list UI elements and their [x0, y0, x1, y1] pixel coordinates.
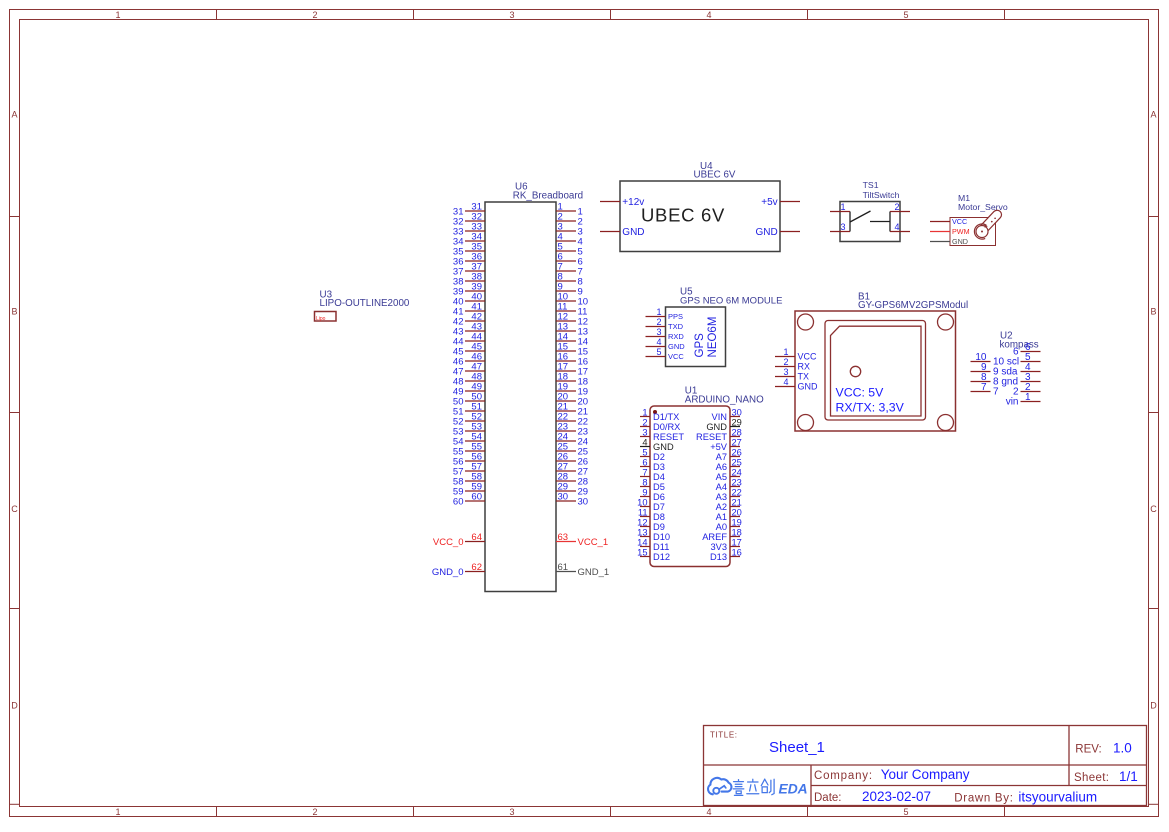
- U6 pin 49: [453, 382, 485, 398]
- TS1 contact bracket right: [889, 212, 891, 232]
- svg-text:6: 6: [1013, 347, 1019, 358]
- svg-text:62: 62: [471, 562, 482, 573]
- svg-text:TITLE:: TITLE:: [710, 731, 738, 740]
- U1 pin 5 D2: [640, 448, 665, 462]
- svg-text:5: 5: [903, 10, 908, 20]
- U1 pin 13 D10: [637, 528, 670, 542]
- U6 pin 52: [453, 412, 485, 428]
- title block Sheet row: [1074, 769, 1138, 784]
- svg-text:15: 15: [637, 548, 647, 558]
- U1 pin 29 GND: [706, 418, 742, 432]
- U6 pin 25: [556, 442, 588, 458]
- svg-text:RX/TX: 3,3V: RX/TX: 3,3V: [836, 400, 905, 414]
- svg-text:TX: TX: [798, 372, 810, 382]
- U6 pin 39: [453, 282, 485, 298]
- U2 pin 10: [971, 352, 1020, 368]
- svg-text:18: 18: [732, 528, 742, 538]
- TS1 pin 4: [890, 222, 910, 232]
- U6 pin 59: [453, 482, 485, 498]
- svg-text:NEO6M: NEO6M: [707, 317, 719, 358]
- U6 pin 31: [453, 202, 485, 218]
- B1 mounting hole top-left: [798, 314, 814, 330]
- svg-text:PWM: PWM: [952, 227, 970, 236]
- U1 pin 11 D8: [638, 508, 665, 522]
- U6 pin 51: [453, 402, 485, 418]
- U6 pin 36: [453, 252, 485, 268]
- svg-text:16: 16: [732, 548, 742, 558]
- EDA logo cloud icon: [708, 778, 731, 794]
- svg-text:VCC_0: VCC_0: [433, 537, 464, 548]
- title block Date row: [814, 789, 1097, 805]
- U6 pin 47: [453, 362, 485, 378]
- svg-text:1.0: 1.0: [1113, 741, 1132, 756]
- U4 designator label: [694, 161, 736, 180]
- svg-text:60: 60: [471, 492, 482, 503]
- U6 pin 12: [556, 312, 588, 328]
- B1 mounting hole top-right: [938, 314, 954, 330]
- svg-text:29: 29: [732, 418, 742, 428]
- svg-text:3: 3: [509, 807, 514, 817]
- svg-text:22: 22: [732, 488, 742, 498]
- U6 pin 20: [556, 392, 588, 408]
- svg-text:Motor_Servo: Motor_Servo: [958, 202, 1008, 212]
- U2 pin 1: [1006, 392, 1041, 408]
- U1 pin 21 A2: [716, 498, 742, 512]
- U1 pin 2 D0/RX: [640, 418, 680, 432]
- svg-text:GND: GND: [798, 382, 819, 392]
- svg-text:+12v: +12v: [622, 197, 644, 208]
- U1 pin 8 D5: [640, 478, 665, 492]
- ruler row labels left: [11, 110, 18, 711]
- U6 pin 17: [556, 362, 588, 378]
- U6 pin 42: [453, 312, 485, 328]
- EDA logo CJK text jia li chuang: [733, 779, 774, 795]
- svg-text:8: 8: [642, 478, 647, 488]
- U6 pin 27: [556, 462, 588, 478]
- U6 pin 28: [556, 472, 588, 488]
- svg-text:7: 7: [981, 382, 987, 393]
- svg-text:D13: D13: [710, 552, 727, 562]
- svg-text:1: 1: [642, 408, 647, 418]
- svg-text:D5: D5: [653, 482, 665, 492]
- U5 pin 4 GND: [646, 337, 686, 351]
- U2 pin 4: [1021, 362, 1041, 373]
- U6 pin 2: [556, 212, 583, 228]
- svg-text:REV:: REV:: [1075, 744, 1101, 756]
- svg-text:D0/RX: D0/RX: [653, 422, 680, 432]
- svg-text:VCC: VCC: [668, 352, 684, 361]
- svg-text:23: 23: [732, 478, 742, 488]
- svg-text:1: 1: [841, 202, 846, 212]
- svg-text:+5v: +5v: [761, 197, 777, 208]
- TS1 switch lever: [850, 211, 890, 222]
- U2 pin 3: [1021, 372, 1041, 383]
- svg-text:LIPO-OUTLINE2000: LIPO-OUTLINE2000: [320, 298, 410, 309]
- U6 pin 5: [556, 242, 583, 258]
- U6 pin 58: [453, 472, 485, 488]
- svg-text:Company:: Company:: [814, 770, 873, 782]
- svg-text:D12: D12: [653, 552, 670, 562]
- svg-text:4: 4: [642, 438, 647, 448]
- U6 pin 22: [556, 412, 588, 428]
- U6 pin 38: [453, 272, 485, 288]
- svg-text:11: 11: [638, 508, 648, 518]
- U4 value text UBEC 6V: [641, 204, 725, 225]
- svg-text:A6: A6: [716, 462, 727, 472]
- svg-text:VCC: VCC: [798, 352, 818, 362]
- U6 pin 37: [453, 262, 485, 278]
- svg-text:5: 5: [642, 448, 647, 458]
- U6 pin 62 GND_0: [432, 562, 485, 578]
- U5 value text GPS NEO6M: [694, 317, 719, 358]
- U1 pin 26 A7: [716, 448, 742, 462]
- U6 pin 26: [556, 452, 588, 468]
- U1 pin 3 RESET: [640, 428, 684, 442]
- svg-text:5: 5: [656, 347, 661, 357]
- U1 pin 7 D4: [640, 468, 665, 482]
- svg-text:19: 19: [732, 518, 742, 528]
- title block outline: [704, 726, 1147, 806]
- svg-text:GND: GND: [706, 422, 727, 432]
- svg-text:C: C: [11, 504, 18, 514]
- U5 pin 1 PPS: [646, 307, 684, 321]
- svg-text:64: 64: [471, 532, 482, 543]
- svg-text:GPS NEO 6M MODULE: GPS NEO 6M MODULE: [680, 295, 782, 306]
- svg-text:3: 3: [642, 428, 647, 438]
- svg-text:GND: GND: [668, 342, 685, 351]
- U2 pin 7: [971, 382, 1000, 398]
- U6 pin 21: [556, 402, 588, 418]
- U1 designator label: [685, 386, 764, 406]
- svg-text:14: 14: [637, 538, 647, 548]
- svg-text:3: 3: [509, 10, 514, 20]
- U6 pin 41: [453, 302, 485, 318]
- U1 pin 15 D12: [637, 548, 670, 562]
- svg-text:2: 2: [312, 10, 317, 20]
- U5 pin 5 VCC: [646, 347, 685, 361]
- U1 pin 14 D11: [637, 538, 669, 552]
- EDA logo EDA text: [779, 782, 808, 797]
- svg-text:kompass: kompass: [1000, 339, 1039, 350]
- svg-text:28: 28: [732, 428, 742, 438]
- U6 pin 55: [453, 442, 485, 458]
- U6 pin 56: [453, 452, 485, 468]
- svg-text:D: D: [11, 701, 18, 711]
- svg-text:TiltSwitch: TiltSwitch: [863, 190, 900, 200]
- U6 pin 45: [453, 342, 485, 358]
- U6 pin 11: [556, 302, 587, 318]
- B1 antenna feed hole: [850, 366, 860, 376]
- U6 pin 32: [453, 212, 485, 228]
- svg-text:RESET: RESET: [696, 432, 727, 442]
- U1 pin 18 AREF: [702, 528, 742, 542]
- svg-text:GY-GPS6MV2GPSModul: GY-GPS6MV2GPSModul: [858, 300, 968, 311]
- U6 pin 1: [556, 202, 583, 218]
- U6 pin 60: [453, 492, 485, 508]
- U6 designator label: [513, 182, 583, 202]
- U6 pin 29: [556, 482, 588, 498]
- U3 value text Lipo: [316, 316, 326, 322]
- U6 pin 18: [556, 372, 588, 388]
- svg-text:RXD: RXD: [668, 332, 684, 341]
- B1 antenna outer outline: [825, 321, 926, 421]
- U1 pin 23 A4: [716, 478, 742, 492]
- U1 pin 30 VIN: [712, 408, 742, 422]
- svg-text:2: 2: [783, 357, 788, 367]
- U1 pin 17 3V3: [710, 538, 741, 552]
- U6 pin 3: [556, 222, 583, 238]
- U6 pin 23: [556, 422, 588, 438]
- svg-text:VCC: 5V: VCC: 5V: [836, 386, 885, 400]
- svg-text:RESET: RESET: [653, 432, 684, 442]
- svg-text:D11: D11: [653, 542, 669, 552]
- U6 pin 16: [556, 352, 588, 368]
- svg-text:10: 10: [637, 498, 647, 508]
- svg-text:GPS: GPS: [694, 333, 706, 358]
- U2 pin 8: [971, 372, 1019, 388]
- TS1 pin 3: [830, 222, 850, 232]
- U6 pin 40: [453, 292, 485, 308]
- M1 pin GND: [930, 237, 968, 246]
- title block sheet name value: [769, 739, 825, 756]
- U6 pin 50: [453, 392, 485, 408]
- svg-text:Your Company: Your Company: [881, 767, 970, 782]
- U2 pin 6: [1013, 342, 1041, 358]
- svg-text:TXD: TXD: [668, 322, 684, 331]
- svg-text:30: 30: [558, 492, 569, 503]
- svg-text:3: 3: [783, 367, 788, 377]
- svg-text:A: A: [1150, 110, 1156, 120]
- svg-text:3V3: 3V3: [710, 542, 727, 552]
- U2 pin 9: [971, 362, 1018, 378]
- U6 pin 24: [556, 432, 588, 448]
- svg-text:1: 1: [1025, 392, 1031, 403]
- B1 pin 4 GND: [775, 377, 818, 392]
- M1 body: [950, 218, 996, 246]
- B1 mounting hole bottom-left: [798, 415, 814, 431]
- U1 pin 28 RESET: [696, 428, 742, 442]
- svg-text:GND_1: GND_1: [578, 567, 610, 578]
- U1 pin 12 D9: [637, 518, 665, 532]
- svg-text:ARDUINO_NANO: ARDUINO_NANO: [685, 395, 764, 406]
- U6 pin 4: [556, 232, 583, 248]
- svg-text:13: 13: [637, 528, 647, 538]
- TS1 pin 2: [890, 202, 910, 212]
- svg-text:4: 4: [894, 222, 899, 232]
- svg-text:D4: D4: [653, 472, 665, 482]
- B1 pin 2 RX: [775, 357, 810, 372]
- U6 pin 8: [556, 272, 583, 288]
- U2 designator label: [1000, 331, 1039, 351]
- U1 pin 4 GND: [640, 438, 674, 452]
- svg-text:Drawn By:: Drawn By:: [954, 793, 1013, 805]
- ruler column labels top: [115, 10, 908, 20]
- svg-text:GND: GND: [755, 227, 777, 238]
- svg-text:4: 4: [706, 10, 711, 20]
- svg-text:D2: D2: [653, 452, 665, 462]
- svg-text:GND: GND: [653, 442, 674, 452]
- svg-text:vin: vin: [1006, 397, 1019, 408]
- svg-text:4: 4: [656, 337, 661, 347]
- svg-text:RK_Breadboard: RK_Breadboard: [513, 190, 583, 201]
- svg-text:RX: RX: [798, 362, 811, 372]
- svg-text:5: 5: [903, 807, 908, 817]
- U1 pin 1 D1/TX: [640, 408, 679, 422]
- svg-text:60: 60: [453, 496, 464, 507]
- U6 pin 15: [556, 342, 588, 358]
- svg-text:3: 3: [841, 222, 846, 232]
- U6 pin 19: [556, 382, 588, 398]
- U6 pin 10: [556, 292, 588, 308]
- B1 designator label: [858, 292, 968, 312]
- B1 pin 1 VCC: [775, 347, 817, 362]
- U1 pin 19 A0: [716, 518, 742, 532]
- svg-text:UBEC 6V: UBEC 6V: [641, 204, 725, 225]
- svg-text:30: 30: [732, 408, 742, 418]
- M1 servo horn icon: [974, 210, 1001, 239]
- U1 pin 27 +5V: [710, 438, 742, 452]
- svg-text:12: 12: [637, 518, 647, 528]
- TS1 contact bracket left: [849, 212, 851, 232]
- TS1 body: [840, 202, 900, 242]
- svg-text:itsyourvalium: itsyourvalium: [1018, 790, 1097, 805]
- svg-text:Date:: Date:: [814, 792, 842, 804]
- svg-text:6: 6: [642, 458, 647, 468]
- svg-text:D1/TX: D1/TX: [653, 412, 679, 422]
- U1 pin 24 A5: [716, 468, 742, 482]
- svg-text:GND: GND: [622, 227, 644, 238]
- U6 pin 44: [453, 332, 485, 348]
- U6 pin 35: [453, 242, 485, 258]
- U6 body: [485, 202, 556, 592]
- U1 pin 10 D7: [637, 498, 665, 512]
- svg-text:D3: D3: [653, 462, 665, 472]
- svg-text:1: 1: [115, 10, 120, 20]
- B1 antenna inner outline with chamfer: [831, 326, 922, 416]
- svg-text:B: B: [1150, 307, 1156, 317]
- svg-text:D8: D8: [653, 512, 665, 522]
- svg-text:21: 21: [732, 498, 742, 508]
- U1 pin 20 A1: [716, 508, 742, 522]
- svg-text:VCC_1: VCC_1: [578, 537, 609, 548]
- svg-text:A7: A7: [716, 452, 727, 462]
- M1 designator label: [958, 193, 1008, 212]
- svg-text:7: 7: [642, 468, 647, 478]
- svg-text:Lipo: Lipo: [316, 316, 326, 322]
- TS1 pin 1: [830, 202, 850, 212]
- B1 pin 3 TX: [775, 367, 809, 382]
- svg-text:PPS: PPS: [668, 312, 683, 321]
- U6 pin 7: [556, 262, 583, 278]
- svg-text:GND: GND: [952, 237, 968, 246]
- U2 pin 2: [1013, 382, 1041, 398]
- svg-text:24: 24: [732, 468, 742, 478]
- svg-text:B: B: [11, 307, 17, 317]
- svg-text:D: D: [1150, 701, 1157, 711]
- svg-text:C: C: [1150, 504, 1157, 514]
- svg-text:7: 7: [993, 387, 999, 398]
- svg-text:2: 2: [642, 418, 647, 428]
- ruler column labels bottom: [115, 807, 908, 817]
- U6 pin 13: [556, 322, 588, 338]
- svg-text:26: 26: [732, 448, 742, 458]
- svg-text:20: 20: [732, 508, 742, 518]
- svg-text:61: 61: [558, 562, 569, 573]
- svg-text:63: 63: [558, 532, 569, 543]
- svg-text:1: 1: [656, 307, 661, 317]
- svg-text:A: A: [11, 110, 17, 120]
- svg-text:GND_0: GND_0: [432, 567, 464, 578]
- U5 designator label: [680, 287, 782, 307]
- svg-text:1: 1: [115, 807, 120, 817]
- svg-text:Sheet_1: Sheet_1: [769, 739, 825, 756]
- svg-text:25: 25: [732, 458, 742, 468]
- B1 body: [795, 311, 956, 431]
- svg-text:VIN: VIN: [712, 412, 728, 422]
- U1 pin 6 D3: [640, 458, 665, 472]
- svg-text:EDA: EDA: [779, 782, 808, 797]
- B1 mounting hole bottom-right: [938, 415, 954, 431]
- U1 pin 16 D13: [710, 548, 742, 562]
- svg-text:3: 3: [656, 327, 661, 337]
- svg-text:D7: D7: [653, 502, 665, 512]
- svg-text:AREF: AREF: [702, 532, 727, 542]
- U1 pin 22 A3: [716, 488, 742, 502]
- svg-text:+5V: +5V: [710, 442, 728, 452]
- U6 pin 48: [453, 372, 485, 388]
- svg-text:VCC: VCC: [952, 217, 967, 226]
- U6 pin 9: [556, 282, 583, 298]
- svg-text:1: 1: [783, 347, 788, 357]
- title block TITLE label: [710, 731, 738, 740]
- U6 pin 54: [453, 432, 485, 448]
- svg-text:2: 2: [894, 202, 899, 212]
- U6 pin 34: [453, 232, 485, 248]
- svg-text:A5: A5: [716, 472, 727, 482]
- svg-text:A1: A1: [716, 512, 727, 522]
- U5 pin 3 RXD: [646, 327, 685, 341]
- U1 pin1 marker dot: [653, 410, 657, 414]
- svg-text:UBEC 6V: UBEC 6V: [694, 169, 736, 180]
- U1 pin 25 A6: [716, 458, 742, 472]
- U1 pin 9 D6: [640, 488, 665, 502]
- U6 pin 6: [556, 252, 583, 268]
- svg-text:30: 30: [578, 496, 589, 507]
- svg-text:9: 9: [642, 488, 647, 498]
- U4 body: [620, 181, 780, 252]
- U3 body: [315, 312, 337, 322]
- U6 pin 63 VCC_1: [556, 532, 608, 548]
- svg-text:TS1: TS1: [863, 180, 879, 190]
- U2 pin 5: [1021, 352, 1041, 363]
- U6 pin 61 GND_1: [556, 562, 609, 578]
- title block REV: [1075, 741, 1131, 756]
- U4 pin GND left: [600, 227, 645, 238]
- svg-text:1/1: 1/1: [1119, 769, 1138, 784]
- title block Company row: [814, 767, 970, 782]
- U6 pin 46: [453, 352, 485, 368]
- U6 pin 64 VCC_0: [433, 532, 485, 548]
- svg-text:D9: D9: [653, 522, 665, 532]
- M1 pin VCC: [930, 217, 967, 226]
- U5 pin 2 TXD: [646, 317, 684, 331]
- M1 pin PWM: [930, 227, 970, 236]
- svg-text:2023-02-07: 2023-02-07: [862, 789, 931, 804]
- U6 pin 43: [453, 322, 485, 338]
- U4 pin GND right: [755, 227, 800, 238]
- svg-text:4: 4: [783, 377, 788, 387]
- svg-text:4: 4: [706, 807, 711, 817]
